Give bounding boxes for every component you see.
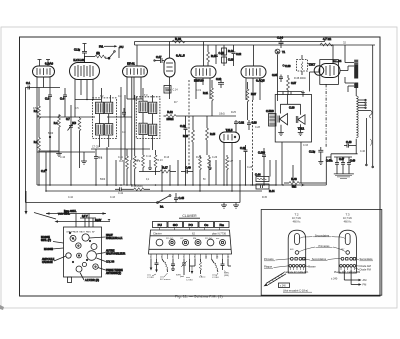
svg-text:460 Kc: 460 Kc	[344, 220, 353, 223]
svg-text:C.V. 84: C.V. 84	[106, 261, 115, 264]
wire C.3 column	[49, 117, 51, 138]
svg-text:Fm: Fm	[220, 223, 225, 227]
svg-text:C.1: C.1	[26, 81, 31, 85]
svg-text:C.7: C.7	[66, 118, 70, 121]
svg-text:PO GO: PO GO	[205, 238, 212, 240]
svg-text:C.Lig: C.Lig	[74, 48, 81, 52]
clavier key FM	[215, 222, 230, 228]
wire right vertical drops	[366, 45, 374, 168]
clavier wiring outer left	[150, 259, 231, 271]
svg-text:(Voir encadré C-18-a): (Voir encadré C-18-a)	[283, 288, 308, 292]
svg-text:92HL (P): 92HL (P)	[41, 239, 51, 242]
IF T1 coil top-right	[105, 102, 113, 113]
wire y149 under can1	[91, 146, 150, 150]
T3 primaire circle	[346, 251, 350, 255]
chassis label CV	[97, 258, 115, 264]
tube V8 EL84 output	[314, 59, 341, 78]
label 32	[343, 41, 346, 45]
svg-text:R.11: R.11	[135, 159, 141, 162]
svg-text:C.14: C.14	[173, 89, 179, 92]
label 240	[331, 278, 338, 281]
svg-text:R.13: R.13	[164, 156, 170, 159]
T3 slot	[345, 234, 350, 245]
chassis socket a pin	[72, 238, 74, 240]
tube V6 pins	[246, 45, 260, 100]
small ground stubs row	[148, 160, 212, 169]
svg-text:C.43: C.43	[110, 197, 116, 199]
trimmer C.7	[66, 105, 75, 152]
chassis label bottom	[80, 273, 99, 283]
switch PU top left	[85, 45, 124, 60]
svg-text:C.45: C.45	[179, 196, 185, 200]
T3 label 497	[341, 249, 345, 251]
RC pair R.44 C.44	[250, 173, 276, 194]
trimmer cross in socket a	[71, 236, 75, 240]
clavier key stems	[160, 228, 220, 231]
wire mid horizontal y117	[37, 116, 95, 118]
chassis label prise terre	[98, 268, 123, 276]
svg-text:C7 C8: C7 C8	[92, 146, 99, 149]
svg-text:E.CH.81: E.CH.81	[73, 58, 85, 62]
svg-text:PU: PU	[158, 223, 162, 227]
resistor R.11	[135, 155, 145, 172]
svg-text:R.45: R.45	[262, 197, 268, 199]
wire top bus B	[135, 44, 376, 46]
switch Int bottom	[157, 195, 171, 209]
clavier coil 4	[195, 240, 201, 246]
capacitor C.Lig top	[74, 44, 87, 63]
tube V5 EBF80	[191, 66, 216, 83]
chassis socket a	[70, 235, 76, 241]
T2 can outline	[288, 230, 306, 273]
clavier pin numbers	[150, 257, 230, 259]
svg-text:A L’CDR (A): A L’CDR (A)	[85, 278, 99, 282]
tube V6 EL84 driver	[241, 66, 266, 83]
svg-text:6.AQ5: 6.AQ5	[256, 79, 265, 83]
hatched pointer arrow	[264, 273, 287, 287]
svg-text:6.BA6: 6.BA6	[45, 62, 54, 66]
chassis socket d	[91, 244, 97, 250]
ground bottom left cluster	[221, 203, 239, 209]
svg-text:EBF.80: EBF.80	[194, 79, 204, 83]
resistor R.9	[133, 150, 141, 185]
resistor R.18 VDR	[115, 185, 150, 195]
T2 primaire circle	[295, 251, 299, 255]
wire top bus A	[135, 41, 326, 43]
svg-text:92HL: 92HL	[176, 275, 182, 277]
svg-text:C.2: C.2	[41, 169, 46, 173]
output transformer core	[266, 109, 276, 126]
chassis socket e	[66, 253, 71, 258]
svg-text:R.20: R.20	[175, 37, 181, 41]
svg-text:C.34: C.34	[272, 74, 278, 77]
svg-text:Oc: Oc	[204, 223, 208, 227]
clavier bottom labels	[147, 273, 230, 282]
chassis socket i	[76, 266, 82, 272]
clavier wiring branch	[190, 259, 196, 274]
IF T1 coil top-left	[96, 102, 104, 113]
boxed capacitor C.14	[164, 86, 178, 94]
svg-text:R.8: R.8	[119, 160, 123, 163]
clavier wiring capacitor C52	[155, 259, 159, 273]
resistor R20 top	[172, 40, 185, 43]
wire left vertical x22	[24, 88, 26, 203]
svg-text:R.3: R.3	[98, 156, 102, 159]
resistor 4.7k top right	[320, 43, 333, 46]
svg-text:PO: PO	[189, 223, 194, 227]
capacitor C.15 column	[214, 45, 225, 64]
clavier wiring cap2	[171, 259, 175, 270]
loudspeaker HP1	[278, 114, 288, 125]
capacitor C.36 on wire	[301, 91, 305, 97]
svg-text:10kΩ: 10kΩ	[219, 113, 225, 116]
IF T2 coil top-right	[149, 102, 157, 113]
wire y117 between cans	[107, 108, 132, 117]
svg-text:R.16: R.16	[183, 135, 189, 138]
svg-text:Clavier: Clavier	[153, 231, 162, 235]
chassis label ampoule	[42, 256, 66, 264]
wire grid left horizontal	[25, 87, 60, 89]
resistor R.12 horizontal	[164, 110, 237, 121]
svg-text:C.V.84: C.V.84	[147, 277, 154, 279]
clavier coil 1	[156, 239, 163, 246]
svg-text:FM.: FM.	[99, 45, 104, 49]
capacitor C.Lig right	[309, 147, 323, 165]
svg-text:5kΩ: 5kΩ	[292, 186, 297, 189]
svg-text:C.24: C.24	[277, 36, 283, 40]
label secondaire right	[357, 257, 374, 261]
svg-text:C.32: C.32	[239, 121, 245, 125]
clavier wiring resistor diag	[162, 259, 168, 272]
resistor R.6	[72, 117, 81, 152]
svg-text:plan N.7736: plan N.7736	[212, 231, 227, 235]
capacitor C.2 node	[41, 152, 47, 191]
tube V3 pins	[127, 45, 141, 99]
IF T1 coil bottom-right	[105, 124, 113, 135]
svg-text:C.4: C.4	[60, 97, 65, 101]
resistor R.22b vertical	[203, 80, 213, 116]
clavier key OC	[199, 222, 214, 228]
IF can label T.2	[100, 94, 104, 98]
svg-text:C.29: C.29	[240, 146, 246, 150]
svg-text:R.21: R.21	[203, 92, 209, 95]
wire pins join y99 tube2	[75, 99, 101, 100]
svg-text:R.13: R.13	[158, 159, 164, 162]
svg-text:x 240: x 240	[280, 285, 286, 287]
svg-text:C.10: C.10	[60, 156, 66, 159]
svg-text:Masse: Masse	[308, 265, 316, 269]
svg-text:AM: AM	[363, 278, 367, 282]
oscillator coil L.O winding	[356, 96, 358, 138]
clavier wiring diag2	[212, 259, 219, 272]
ground bar right	[334, 174, 354, 179]
T2 pin row	[289, 265, 305, 268]
T2 header	[292, 213, 302, 224]
svg-text:C.13: C.13	[166, 90, 172, 92]
tube V3 6M64	[123, 62, 148, 78]
capacitor C.29	[240, 145, 248, 158]
label plaque left	[264, 265, 289, 269]
tube V2 pins bottom	[75, 80, 93, 118]
svg-text:C.47a: C.47a	[326, 160, 333, 163]
T3 pin row	[340, 265, 356, 268]
tube V5 pins	[196, 42, 210, 100]
svg-text:R.18(VDR): R.18(VDR)	[131, 185, 143, 188]
svg-text:Plaque: Plaque	[264, 265, 273, 269]
clavier key PO	[184, 222, 199, 228]
tube V7 6AL5 det	[220, 128, 240, 143]
tube V1 grid pins top	[38, 60, 51, 67]
wire verticals between IF cans	[121, 77, 135, 160]
label masse	[305, 265, 316, 269]
svg-text:C.27: C.27	[228, 160, 234, 163]
wire bus y185 corner up	[326, 157, 331, 185]
stack C.22 column	[232, 45, 242, 66]
svg-text:C.44: C.44	[255, 173, 261, 177]
svg-text:Primaire: Primaire	[264, 257, 274, 261]
svg-text:R.17: R.17	[162, 166, 168, 170]
note voir encadre	[283, 288, 312, 292]
chassis socket h pin	[95, 266, 96, 267]
svg-text:R.44: R.44	[269, 189, 275, 193]
svg-text:T.3: T.3	[345, 213, 349, 217]
T2T3 panel border	[261, 210, 382, 296]
capacitor C.21 pair	[216, 78, 224, 88]
svg-text:Cathode FM: Cathode FM	[347, 271, 360, 274]
T3 pin ticks	[341, 267, 354, 270]
IF T2 coil bottom-right	[149, 124, 157, 135]
svg-text:C.100: C.100	[258, 151, 265, 155]
capacitor C.4	[60, 88, 67, 117]
wire y152 horizontal	[37, 151, 95, 153]
IF transformer T2 dashed can	[136, 97, 160, 139]
svg-text:PARLEUR A.F.: PARLEUR A.F.	[106, 237, 123, 240]
resistor R.27 vertical	[246, 82, 257, 120]
svg-text:C.22: C.22	[236, 53, 242, 56]
wire bus y191	[46, 190, 262, 192]
tube V4 pins	[169, 42, 171, 100]
label secondaire top	[300, 233, 345, 238]
wire dashed vertical AVC	[252, 100, 254, 172]
svg-text:FM: FM	[193, 238, 196, 240]
resistor R.8	[119, 149, 128, 185]
svg-text:R.1: R.1	[34, 110, 38, 113]
svg-text:CLAVIER: CLAVIER	[182, 214, 197, 218]
chassis top feed line	[46, 209, 111, 227]
stack R.14 C.23 left of V6	[222, 45, 235, 66]
TH1 inner resistor	[301, 55, 316, 75]
dashed link line x326	[325, 84, 327, 147]
svg-text:Plaque FM: Plaque FM	[334, 271, 346, 274]
svg-text:GO: GO	[173, 223, 178, 227]
svg-text:C.12: C.12	[146, 155, 152, 158]
wire vertical x185 C.16	[180, 116, 188, 150]
svg-text:C.40: C.40	[185, 166, 191, 170]
capacitor C.45 bottom	[174, 193, 185, 203]
label primaire left	[264, 257, 290, 261]
svg-text:R.15: R.15	[210, 133, 216, 136]
svg-text:PO GO: PO GO	[166, 238, 173, 240]
svg-text:C.26: C.26	[212, 156, 218, 159]
T2 mid terminals	[290, 257, 305, 260]
wire V8 plate	[340, 66, 354, 83]
label 10k on R12 line	[219, 113, 225, 116]
svg-text:E.L.84: E.L.84	[333, 59, 342, 63]
svg-text:OC: OC	[180, 238, 184, 240]
svg-text:100kΩ: 100kΩ	[167, 118, 174, 121]
label plaque cathode below T3	[334, 271, 360, 274]
svg-text:R.38 400Ω: R.38 400Ω	[294, 77, 306, 80]
resistor R.46	[284, 177, 312, 189]
resistor R.1	[34, 88, 41, 186]
resistor R.30 vertical right of V6	[287, 75, 297, 95]
svg-text:C.28: C.28	[247, 166, 253, 169]
svg-text:Fig. 11. — Schéma F.M. (1): Fig. 11. — Schéma F.M. (1)	[175, 295, 223, 299]
svg-text:C.47: C.47	[339, 158, 345, 161]
clavier wiring cap3	[221, 259, 225, 270]
vertical feeds into bus	[50, 137, 293, 203]
wire left drop arrow	[25, 191, 28, 215]
svg-text:R.6: R.6	[72, 122, 76, 125]
wire V2 plate to top	[84, 56, 86, 63]
capacitor C.48	[344, 140, 356, 148]
svg-text:C.11: C.11	[118, 156, 124, 159]
svg-text:13,5V: 13,5V	[95, 219, 102, 222]
svg-text:FM: FM	[363, 283, 367, 287]
T3 mid terminals	[341, 257, 356, 260]
wire bus y202	[25, 202, 240, 204]
T2 pin ticks	[290, 267, 303, 270]
svg-text:R.22: R.22	[196, 156, 202, 159]
svg-text:47kΩ: 47kΩ	[33, 108, 39, 110]
svg-text:R.4: R.4	[54, 122, 58, 125]
speaker enclosure box	[275, 95, 311, 143]
svg-text:C.3: C.3	[45, 97, 50, 101]
chassis label autre HP	[97, 250, 126, 256]
wire top bus B left drop	[134, 42, 136, 46]
chassis rear box	[64, 227, 102, 277]
chassis socket f pin	[78, 255, 79, 256]
resistor R.15 vertical	[206, 116, 216, 155]
chassis socket tuning	[87, 251, 97, 261]
tube V1 6BA6	[33, 62, 55, 78]
tube V7 pins	[224, 143, 232, 186]
capacitor C.1	[26, 81, 31, 90]
svg-text:C.21: C.21	[216, 78, 222, 81]
tiny labels bottom band	[60, 155, 253, 169]
IF can label T.3	[144, 93, 148, 97]
T3 can outline	[339, 230, 356, 273]
clavier key PU	[153, 222, 168, 228]
IF T1 internal wires	[100, 88, 111, 147]
svg-text:Diode AM: Diode AM	[360, 264, 371, 268]
wire dashed AVC x189	[188, 80, 190, 170]
svg-text:R.46: R.46	[291, 177, 297, 181]
coil tap lines	[358, 99, 372, 118]
svg-text:C.41: C.41	[118, 192, 124, 195]
svg-text:HAUT-PARLEUR: HAUT-PARLEUR	[106, 253, 125, 256]
svg-text:R.3: R.3	[34, 141, 38, 144]
tube V1 pins bottom	[37, 77, 50, 185]
clavier coil 6	[220, 240, 226, 246]
svg-text:C.Lig: C.Lig	[309, 150, 316, 154]
svg-text:(FM): (FM)	[224, 275, 229, 277]
svg-text:T.2: T.2	[100, 94, 104, 98]
ground left bank	[81, 152, 87, 164]
svg-text:CADRAN: CADRAN	[42, 261, 53, 264]
clavier key GO	[168, 222, 183, 228]
output transformer T.S winding	[354, 60, 358, 97]
svg-text:C.5M9: C.5M9	[266, 109, 274, 113]
svg-text:3,5 V: 3,5 V	[82, 215, 88, 218]
svg-text:ANTENNE(T): ANTENNE(T)	[106, 272, 121, 275]
wire y153.8 right	[331, 139, 358, 160]
wire speaker feeds	[277, 92, 303, 186]
tube V4 6AL5 vertical	[164, 54, 185, 78]
svg-text:Int.: Int.	[160, 205, 164, 209]
svg-text:4,7 kΩ: 4,7 kΩ	[323, 37, 331, 41]
label cathode grille below T2	[284, 271, 309, 274]
T3 header	[343, 213, 353, 224]
svg-text:5000: 5000	[100, 179, 106, 181]
FM unit box	[320, 60, 339, 85]
svg-text:Grille F.O.: Grille F.O.	[298, 271, 309, 274]
chassis socket small dots	[69, 232, 90, 262]
capacitor C.32	[234, 120, 245, 132]
svg-text:Secondaire: Secondaire	[360, 257, 374, 261]
chassis mounting tab	[68, 277, 72, 283]
dashed box TH1	[297, 60, 308, 72]
svg-text:Diode FM: Diode FM	[360, 267, 371, 271]
IF T2 coil top-left	[139, 101, 147, 112]
svg-text:C.37: C.37	[291, 82, 297, 85]
svg-text:C.19: C.19	[196, 90, 202, 92]
capacitor C.17	[154, 55, 164, 63]
svg-text:(R): (R)	[96, 51, 100, 55]
capacitor C.100	[258, 148, 266, 162]
wire V8 grid feed	[332, 45, 334, 64]
clavier coil 3	[183, 240, 189, 246]
svg-text:C.49: C.49	[350, 160, 356, 163]
chassis socket h	[93, 264, 98, 269]
svg-text:T.2: T.2	[294, 213, 298, 217]
svg-text:C.30: C.30	[289, 106, 295, 110]
wire diagonal to chassis	[34, 212, 70, 220]
wire winding left feeds	[345, 45, 354, 92]
wire pins join y99 tube3	[127, 98, 143, 99]
resistor R.16 vertical	[183, 116, 195, 155]
value labels sprinkle	[33, 90, 366, 199]
IF T2 coil bottom-left	[139, 123, 147, 134]
chassis left leader masse	[41, 236, 64, 243]
capacitor C.24 top	[277, 36, 284, 49]
tube V2 ECH81	[70, 58, 100, 80]
resistor R.4	[54, 115, 61, 152]
svg-text:PU: PU	[120, 45, 124, 49]
clavier wiring res vertical	[199, 259, 201, 274]
svg-text:460 Kc: 460 Kc	[293, 220, 302, 223]
clavier bottom leader lines	[152, 271, 226, 278]
schematic frame	[20, 37, 381, 296]
svg-text:R.25: R.25	[231, 112, 237, 114]
chassis label masse92	[44, 248, 64, 251]
svg-text:masse: masse	[199, 277, 206, 279]
arrow vers HP	[301, 184, 305, 187]
label primaires mid	[299, 244, 346, 252]
resistor R.17	[155, 166, 176, 174]
svg-text:Cathode F.O.: Cathode F.O.	[284, 271, 298, 274]
clavier body outline	[149, 230, 232, 254]
